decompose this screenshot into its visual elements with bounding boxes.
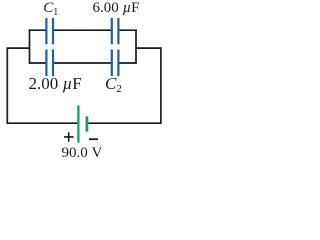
label C2	[105, 75, 122, 95]
minus sign	[89, 138, 98, 140]
label 6.00 uF	[93, 1, 140, 16]
wire branch1 right segment	[119, 29, 137, 31]
capacitor 2.00uF plates	[45, 50, 47, 77]
wire right loop: mid stub, right rail, bottom-right wire	[88, 48, 161, 123]
plus sign	[64, 132, 74, 142]
wire left junction vertical	[29, 29, 31, 63]
wire branch2 left segment	[29, 62, 46, 64]
label 90.0 V	[62, 146, 103, 161]
capacitor C1 plates	[45, 18, 47, 44]
wire left loop: mid stub, left rail, bottom-left wire	[7, 48, 77, 123]
wire branch1 middle segment	[54, 29, 111, 31]
capacitor C2 plates	[111, 50, 113, 77]
label 2.00 uF	[29, 75, 82, 92]
capacitor 6.00uF plates	[111, 18, 113, 44]
wire branch2 right segment	[119, 62, 137, 64]
wire branch2 middle segment	[54, 62, 111, 64]
battery long plate (positive)	[77, 106, 79, 143]
battery short plate (negative)	[86, 116, 89, 131]
wire right junction vertical	[135, 29, 137, 63]
wire branch1 left segment	[29, 29, 46, 31]
label C1	[43, 1, 58, 18]
